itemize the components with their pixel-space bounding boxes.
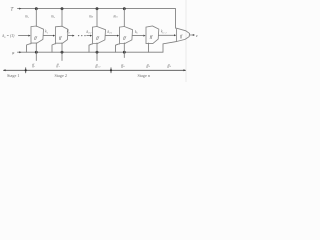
node clock dot 3 bbox=[96, 51, 99, 54]
svg-text:Stage 2: Stage 2 bbox=[55, 73, 67, 78]
wire T bus start arrow bbox=[19, 8, 21, 10]
wire k n bbox=[133, 35, 144, 37]
wire T bus bbox=[18, 9, 176, 29]
wire output z bbox=[190, 34, 193, 36]
svg-text:z: z bbox=[195, 33, 198, 38]
wire clock riser stage1 bbox=[27, 44, 32, 53]
wire T drop stage1 bbox=[35, 9, 37, 27]
scan artifact vertical line bbox=[185, 0, 187, 82]
wire k n+1 bbox=[159, 34, 174, 36]
wire clock bus bbox=[18, 42, 177, 53]
node clock dot 4 bbox=[123, 51, 126, 54]
stage dimension line bbox=[4, 69, 186, 71]
wire k2 stub bbox=[68, 35, 73, 37]
wire clock riser stage n bbox=[116, 44, 120, 52]
wire k n-1 bbox=[106, 35, 117, 37]
node ellipsis dots bbox=[78, 35, 79, 36]
stage tick 1 bbox=[25, 68, 27, 73]
wire T drop stage n bbox=[123, 9, 125, 27]
output AND gate bbox=[177, 28, 190, 41]
svg-text:ffₙ: ffₙ bbox=[147, 64, 151, 68]
wire clock riser stage n-1 bbox=[89, 44, 93, 52]
wire clock stub stage n+1 bbox=[148, 43, 150, 52]
flip-flop cell 2 bbox=[56, 26, 69, 43]
node clock dot 2 bbox=[61, 51, 64, 54]
svg-text:mₙ: mₙ bbox=[114, 15, 119, 19]
svg-text:k₀ = (1): k₀ = (1) bbox=[3, 34, 16, 38]
node junction dot T4 bbox=[123, 7, 126, 10]
wire T drop stage n-1 bbox=[96, 9, 98, 27]
wire clock stub stage2 bbox=[61, 43, 63, 61]
flip-flop cell n+1 bbox=[146, 26, 159, 44]
svg-text:ffₙ: ffₙ bbox=[168, 64, 172, 68]
wire clock riser stage2 bbox=[52, 44, 56, 52]
wire clock stub stage n bbox=[123, 43, 125, 58]
svg-text:Stage n: Stage n bbox=[138, 73, 151, 78]
node junction dot T2 bbox=[61, 7, 64, 10]
wire clock stub stage1 bbox=[35, 43, 37, 61]
wire T drop stage2 bbox=[61, 9, 63, 27]
svg-text:Stage 1: Stage 1 bbox=[7, 73, 19, 78]
wire k n-2 bbox=[87, 35, 90, 37]
svg-text:ffₙ: ffₙ bbox=[121, 64, 125, 68]
wire clock bus start arrow bbox=[19, 51, 21, 53]
node junction dot T3 bbox=[96, 7, 99, 10]
flip-flop cell 1 bbox=[31, 26, 44, 43]
node junction dot T1 bbox=[35, 7, 38, 10]
wire k1 bbox=[44, 35, 54, 37]
flip-flop cell n bbox=[120, 27, 133, 44]
svg-text:mₙ: mₙ bbox=[89, 15, 94, 19]
wire input k0 bbox=[19, 35, 29, 37]
flip-flop cell n-1 bbox=[93, 27, 106, 44]
node clock dot 1 bbox=[35, 51, 38, 54]
wire clock stub stage n-1 bbox=[96, 43, 98, 61]
stage tick 2 bbox=[110, 68, 112, 73]
